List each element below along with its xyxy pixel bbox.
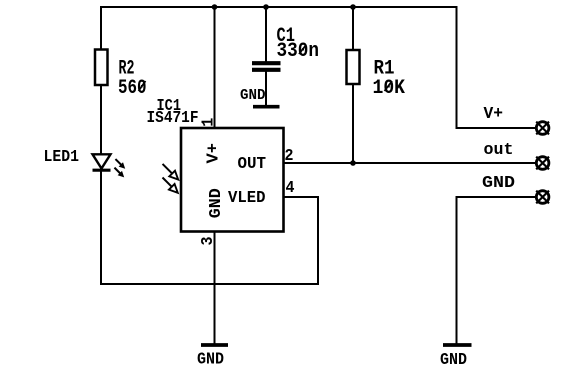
wire LED cathode down — [100, 170, 102, 285]
wire top V+ rail — [101, 6, 457, 8]
wire bottom VLED run — [101, 283, 318, 285]
svg-text:VLED: VLED — [228, 189, 266, 208]
terminal pad V+ — [536, 122, 549, 135]
wire C1 bottom lead — [265, 72, 267, 105]
svg-text:3: 3 — [199, 237, 218, 246]
svg-text:560: 560 — [118, 77, 147, 100]
op-amp/IC U1 IS471F box — [181, 128, 284, 232]
label 560 zero slash — [139, 81, 146, 91]
LED LED1 triangle anode — [93, 154, 111, 168]
photodetector arrow 2 into box — [160, 175, 181, 196]
photodetector arrow 1 into box — [160, 161, 181, 182]
label 10K zero slash — [385, 81, 393, 91]
ground GND symbol right: bar — [443, 343, 472, 347]
node junction pin1/top rail — [212, 4, 218, 10]
wire VLED riser — [317, 197, 319, 284]
node junction C1/top rail — [263, 4, 269, 10]
svg-text:1: 1 — [199, 118, 218, 127]
svg-text:4: 4 — [286, 179, 295, 198]
svg-text:V+: V+ — [484, 105, 504, 124]
wire GND to terminal — [457, 196, 536, 198]
wire pin1 riser — [214, 7, 216, 128]
wire V+ to terminal — [457, 127, 536, 129]
LED LED1 cathode bar — [93, 169, 111, 172]
wire R2 to LED — [100, 85, 102, 154]
svg-text:V+: V+ — [205, 143, 224, 164]
svg-text:IS471F: IS471F — [147, 109, 199, 128]
wire R1 bottom lead — [352, 84, 354, 163]
wire GND drop right — [456, 197, 458, 344]
wire left rail upper — [100, 7, 102, 50]
wire C1 top lead — [265, 7, 267, 61]
svg-text:GND: GND — [197, 351, 224, 367]
svg-text:LED1: LED1 — [44, 148, 80, 167]
svg-text:GND: GND — [440, 351, 467, 367]
svg-text:GND: GND — [482, 174, 515, 193]
svg-text:OUT: OUT — [238, 155, 267, 174]
wire pin3 GND drop — [214, 232, 216, 345]
wire R1 top lead — [352, 7, 354, 50]
ground GND symbol at C1: bar — [253, 105, 280, 109]
terminal pad out — [536, 157, 549, 170]
svg-text:out: out — [484, 141, 514, 160]
resistor R1 body — [347, 50, 360, 84]
wire VLED into pin4 — [284, 196, 319, 198]
svg-text:330n: 330n — [277, 40, 320, 63]
node junction R1/OUT — [350, 160, 356, 166]
svg-text:GND: GND — [207, 188, 226, 218]
capacitor C1 bottom plate — [252, 68, 281, 72]
label 330n zero slash — [299, 45, 306, 54]
LED LED1 emission arrow 1 — [113, 157, 127, 171]
LED LED1 emission arrow 2 — [112, 165, 126, 179]
capacitor C1 top plate — [252, 61, 281, 65]
wire V+ riser right — [456, 7, 458, 128]
svg-text:2: 2 — [285, 147, 294, 166]
node junction R1/top rail — [350, 4, 356, 10]
svg-text:GND: GND — [240, 87, 266, 104]
terminal pad GND — [536, 191, 549, 204]
svg-text:10K: 10K — [373, 77, 406, 100]
ground GND symbol at pin3: bar — [201, 343, 228, 347]
wire OUT run pin2 to terminal — [284, 162, 536, 164]
resistor R2 body — [95, 50, 108, 86]
